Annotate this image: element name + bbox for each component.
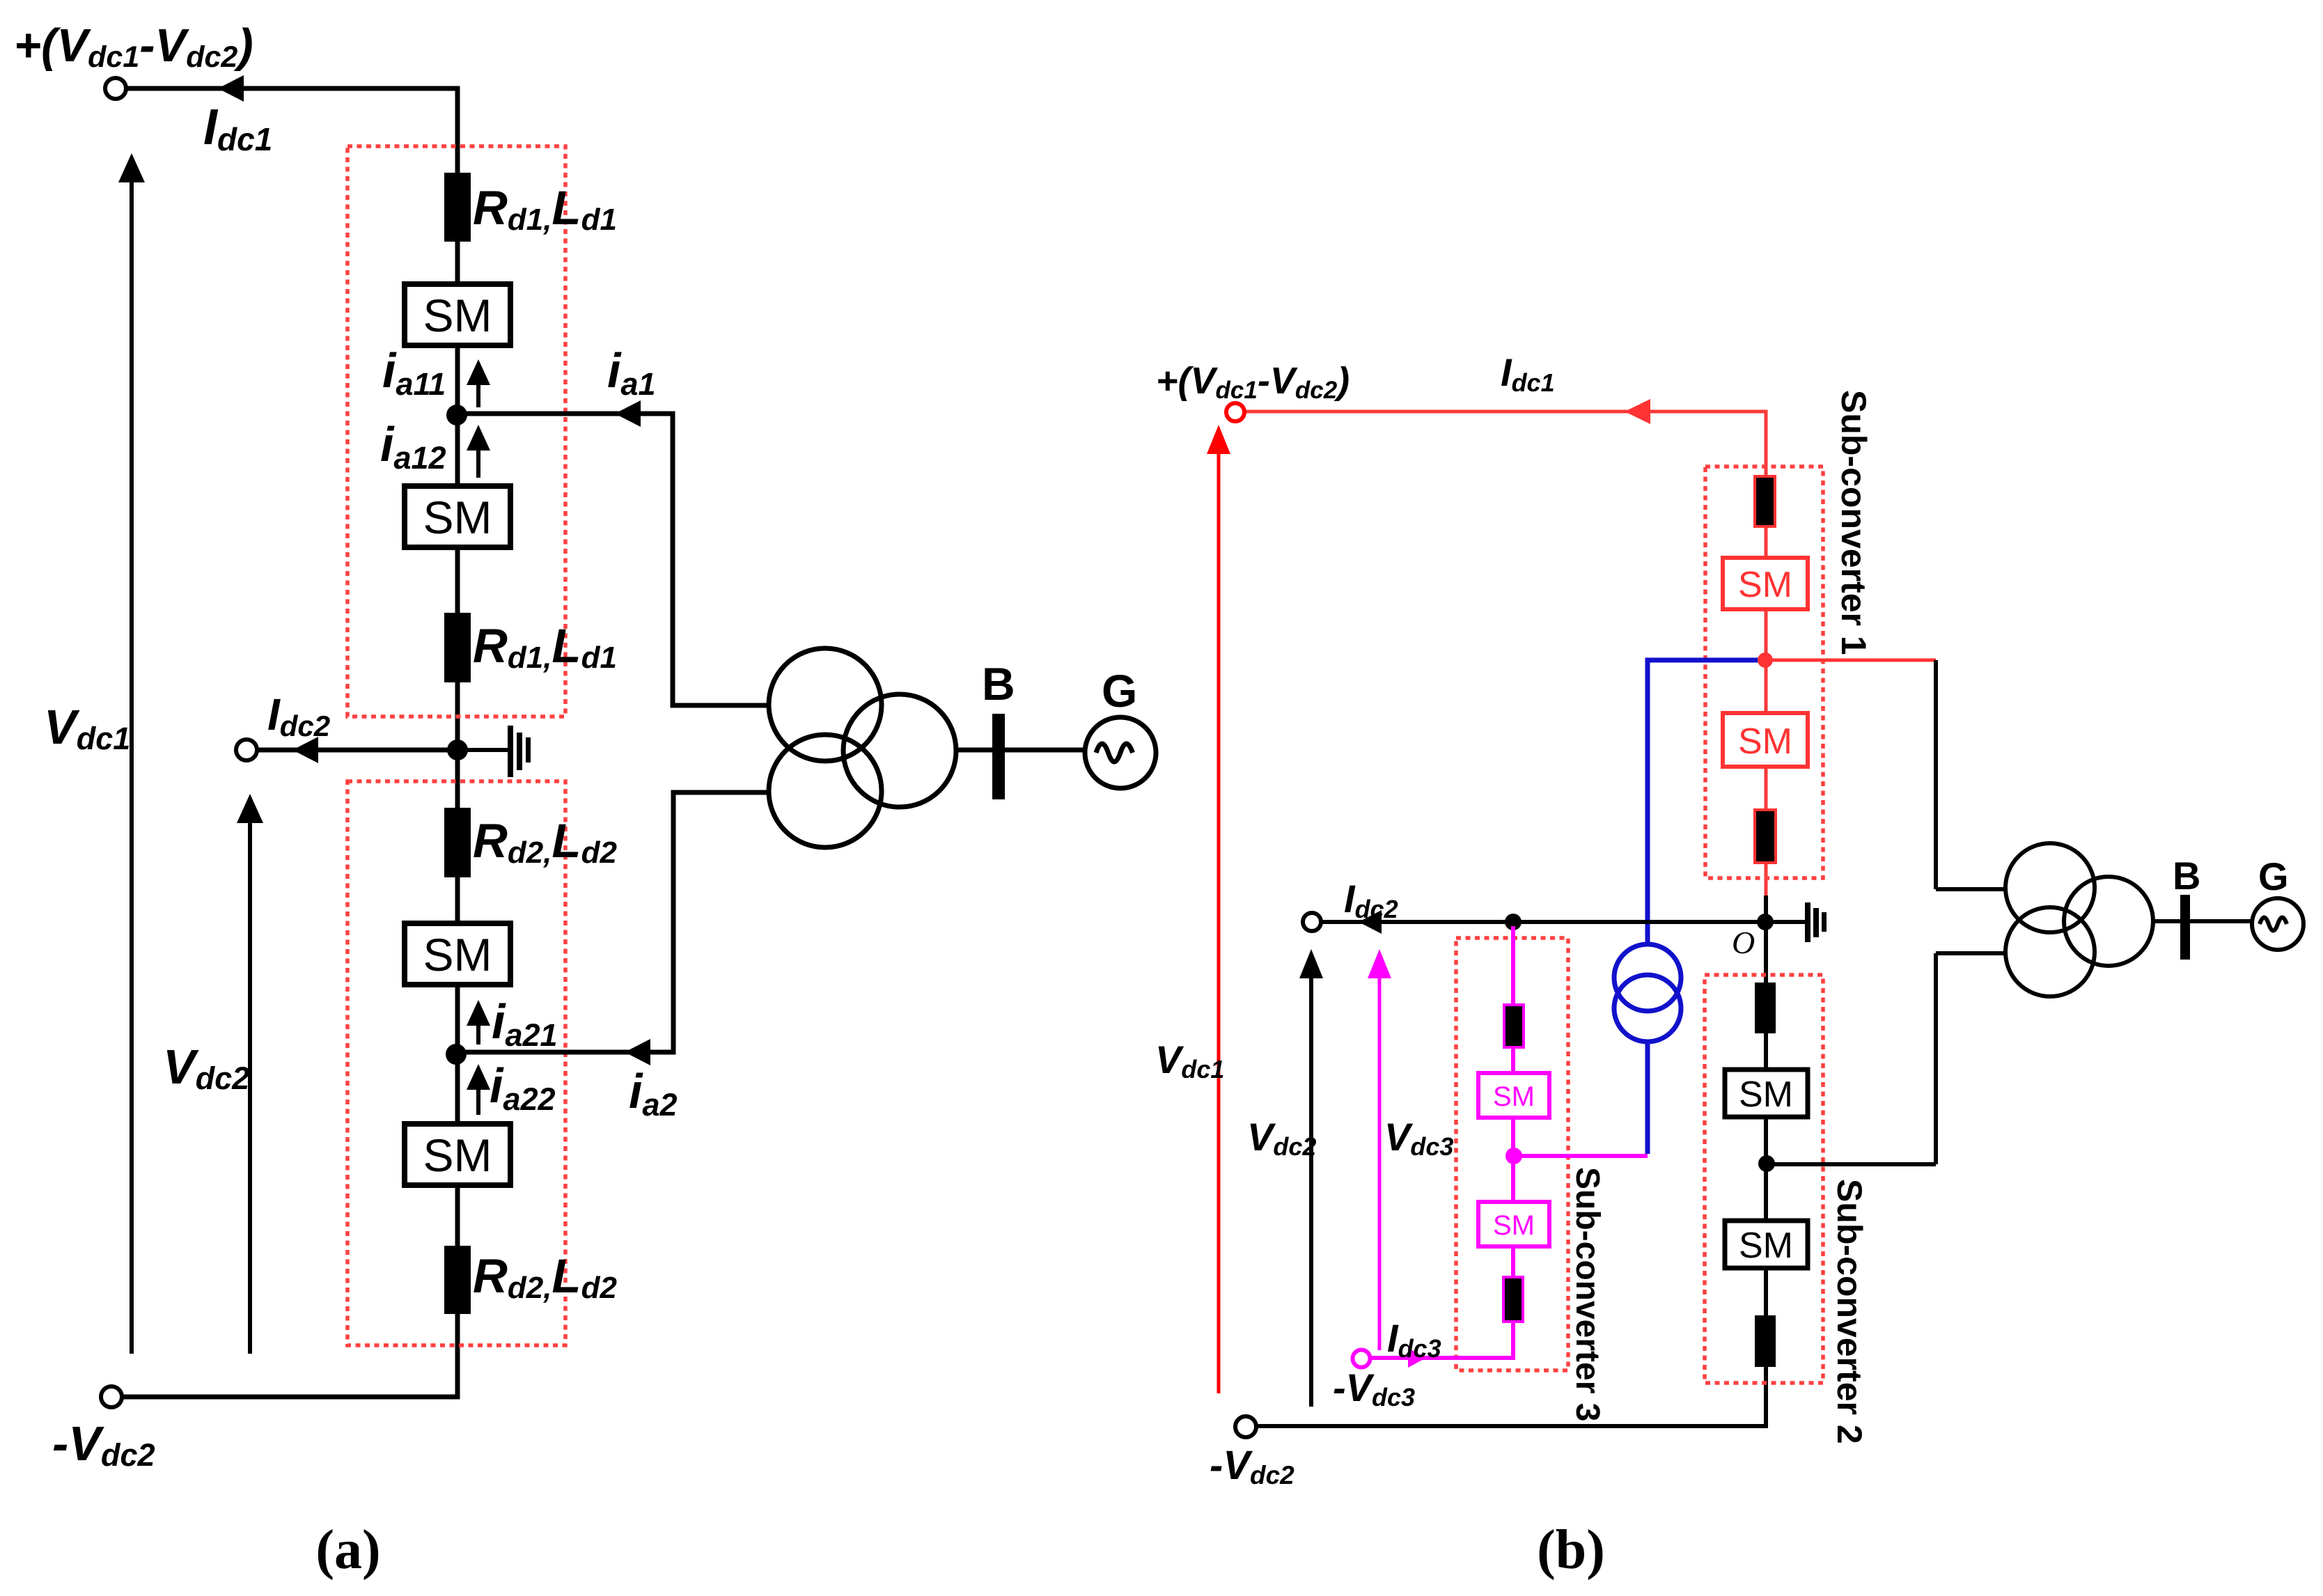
- Vdc2 dimension arrow fig b: [1309, 975, 1313, 1407]
- node midpoint junction: [447, 740, 468, 760]
- submodule SM black box 1 fig b: [1725, 1070, 1808, 1117]
- svg-text:(a): (a): [315, 1519, 380, 1581]
- svg-text:SM: SM: [423, 1129, 492, 1181]
- svg-text:Sub-converter 3: Sub-converter 3: [1569, 1167, 1606, 1421]
- submodule SM red box 1: [1723, 558, 1808, 609]
- submodule SM black box 2 fig b: [1725, 1221, 1808, 1268]
- resistor Rd2,Ld2 (lower): [444, 1246, 471, 1314]
- current arrow ia21: [476, 1022, 480, 1045]
- arrowhead ia1 (points left): [615, 400, 641, 427]
- svg-text:SM: SM: [1738, 565, 1792, 605]
- svg-text:B: B: [2173, 854, 2200, 898]
- submodule SM magenta box 1: [1478, 1073, 1549, 1118]
- node A (junction arm1): [446, 405, 467, 425]
- resistor Rd1,Ld1 (upper): [444, 173, 471, 242]
- resistor Rd1,Ld1 (lower): [444, 613, 471, 682]
- node magenta: [1505, 1148, 1522, 1164]
- resistor arm2a (black): [1755, 983, 1776, 1033]
- terminal circle +(Vdc1-Vdc2): [105, 78, 126, 99]
- node red (arm1 midpoint): [1758, 652, 1773, 668]
- transformer T2 fig b (three winding circles): [2005, 843, 2095, 932]
- node B (junction arm2): [446, 1044, 467, 1065]
- sub-converter 2 dotted box: [1705, 975, 1823, 1383]
- blue transformer Tb (two circles): [1614, 944, 1681, 1011]
- terminal circle -Vdc2: [101, 1386, 122, 1407]
- magenta trunk sub-converter 3: [1371, 926, 1513, 1358]
- bus bar B: [992, 714, 1005, 799]
- submodule SM box 1: [405, 284, 510, 345]
- current arrow ia11: [476, 382, 480, 407]
- resistor arm3a (magenta outline): [1504, 1005, 1524, 1047]
- current arrow ia12: [476, 447, 480, 478]
- svg-text:SM: SM: [423, 929, 492, 980]
- current arrow ia22: [476, 1086, 480, 1115]
- trunk black: O junction down through sub-converter 2 to bottom terminal: [1257, 895, 1766, 1426]
- node O junction: [1757, 914, 1774, 930]
- svg-text:SM: SM: [1739, 1074, 1793, 1115]
- wire right riser lower: [1934, 953, 1938, 1164]
- svg-text:B: B: [982, 658, 1015, 710]
- svg-text:SM: SM: [423, 492, 492, 543]
- arrowhead Idc2 fig b (points left): [1359, 910, 1382, 934]
- resistor arm1a (red outline): [1755, 476, 1775, 526]
- node junction sub-converter3 tap: [1505, 914, 1522, 930]
- wire: top dc terminal to trunk, down trunk, to bottom terminal: [123, 88, 457, 1397]
- transformer T1 (three winding circles): [769, 648, 882, 761]
- svg-text:G: G: [2258, 854, 2289, 898]
- Vdc3 magenta dimension arrow: [1378, 975, 1382, 1350]
- resistor arm2b (black): [1755, 1315, 1776, 1367]
- ground fig b: [1805, 902, 1810, 942]
- magenta wire node3 to blue: [1514, 1154, 1648, 1158]
- wire transformer to bus B fig b: [2153, 919, 2252, 923]
- red dotted box arm 2: [347, 781, 565, 1345]
- wire upper tap: [1936, 887, 2007, 891]
- wire node A to transformer upper tap: [457, 414, 769, 705]
- ground (rotated bars): [457, 748, 509, 752]
- sub-converter 1 dotted box: [1705, 467, 1823, 878]
- wire Idc2 fig b: [1322, 920, 1805, 924]
- terminal circle -Vdc2 fig b: [1235, 1416, 1256, 1437]
- svg-text:Sub-converter 2: Sub-converter 2: [1830, 1179, 1869, 1444]
- submodule SM box 2: [405, 486, 510, 547]
- svg-text:G: G: [1102, 665, 1137, 717]
- wire Idc2 terminal: [257, 748, 457, 753]
- svg-text:SM: SM: [1739, 1226, 1793, 1266]
- wire transformer to bus B: [956, 748, 1086, 753]
- resistor Rd2,Ld2 (upper): [444, 808, 471, 877]
- submodule SM magenta box 2: [1478, 1202, 1549, 1246]
- red dotted box arm 1: [347, 146, 565, 717]
- arrowhead ia2 (points left): [625, 1039, 650, 1065]
- blue wire: node to transformer Tb: [1648, 660, 1760, 945]
- node arm2 midpoint: [1758, 1155, 1775, 1172]
- wire red top: terminal to sub-converter-1 trunk: [1245, 412, 1766, 895]
- svg-text:SM: SM: [1493, 1081, 1535, 1112]
- wire node B to transformer lower tap: [456, 792, 769, 1052]
- svg-text:(b): (b): [1537, 1519, 1605, 1581]
- submodule SM box 4: [405, 1124, 510, 1185]
- terminal circle -Vdc3 magenta: [1353, 1350, 1370, 1368]
- Vdc1 dimension arrow (left): [130, 180, 134, 1354]
- resistor arm1b (red outline): [1755, 810, 1776, 863]
- generator G (ac source): [1085, 717, 1156, 788]
- wire lower tap: [1936, 951, 2007, 955]
- bus bar B fig b: [2180, 895, 2190, 960]
- terminal circle Idc2 fig b: [1303, 913, 1321, 931]
- generator G fig b: [2252, 898, 2304, 950]
- resistor arm3b (magenta outline): [1503, 1277, 1523, 1322]
- blue wire lower: [1645, 1042, 1650, 1154]
- svg-text:SM: SM: [1738, 721, 1792, 762]
- svg-text:SM: SM: [1493, 1210, 1535, 1241]
- Vdc1 red dimension arrow: [1217, 451, 1221, 1393]
- svg-text:O: O: [1732, 925, 1755, 960]
- svg-text:SM: SM: [423, 290, 492, 341]
- svg-text:Sub-converter 1: Sub-converter 1: [1834, 390, 1873, 655]
- arrowhead Idc1 (points left): [218, 75, 244, 102]
- arrowhead Idc3 magenta (points right): [1408, 1348, 1426, 1368]
- red wire node to right riser: [1773, 659, 1936, 662]
- submodule SM red box 2: [1723, 713, 1808, 767]
- arrowhead Idc2 (points left): [292, 737, 318, 763]
- wire node to right riser: [1767, 1162, 1936, 1166]
- terminal circle Idc2: [236, 740, 257, 760]
- terminal circle red: [1226, 403, 1244, 421]
- submodule SM box 3: [405, 923, 510, 985]
- sub-converter 3 dotted box: [1456, 938, 1568, 1370]
- Vdc2 dimension arrow (left): [248, 820, 252, 1354]
- arrowhead Idc1 red (points left): [1625, 399, 1650, 424]
- wire right riser upper (red node to transformer): [1934, 660, 1938, 889]
